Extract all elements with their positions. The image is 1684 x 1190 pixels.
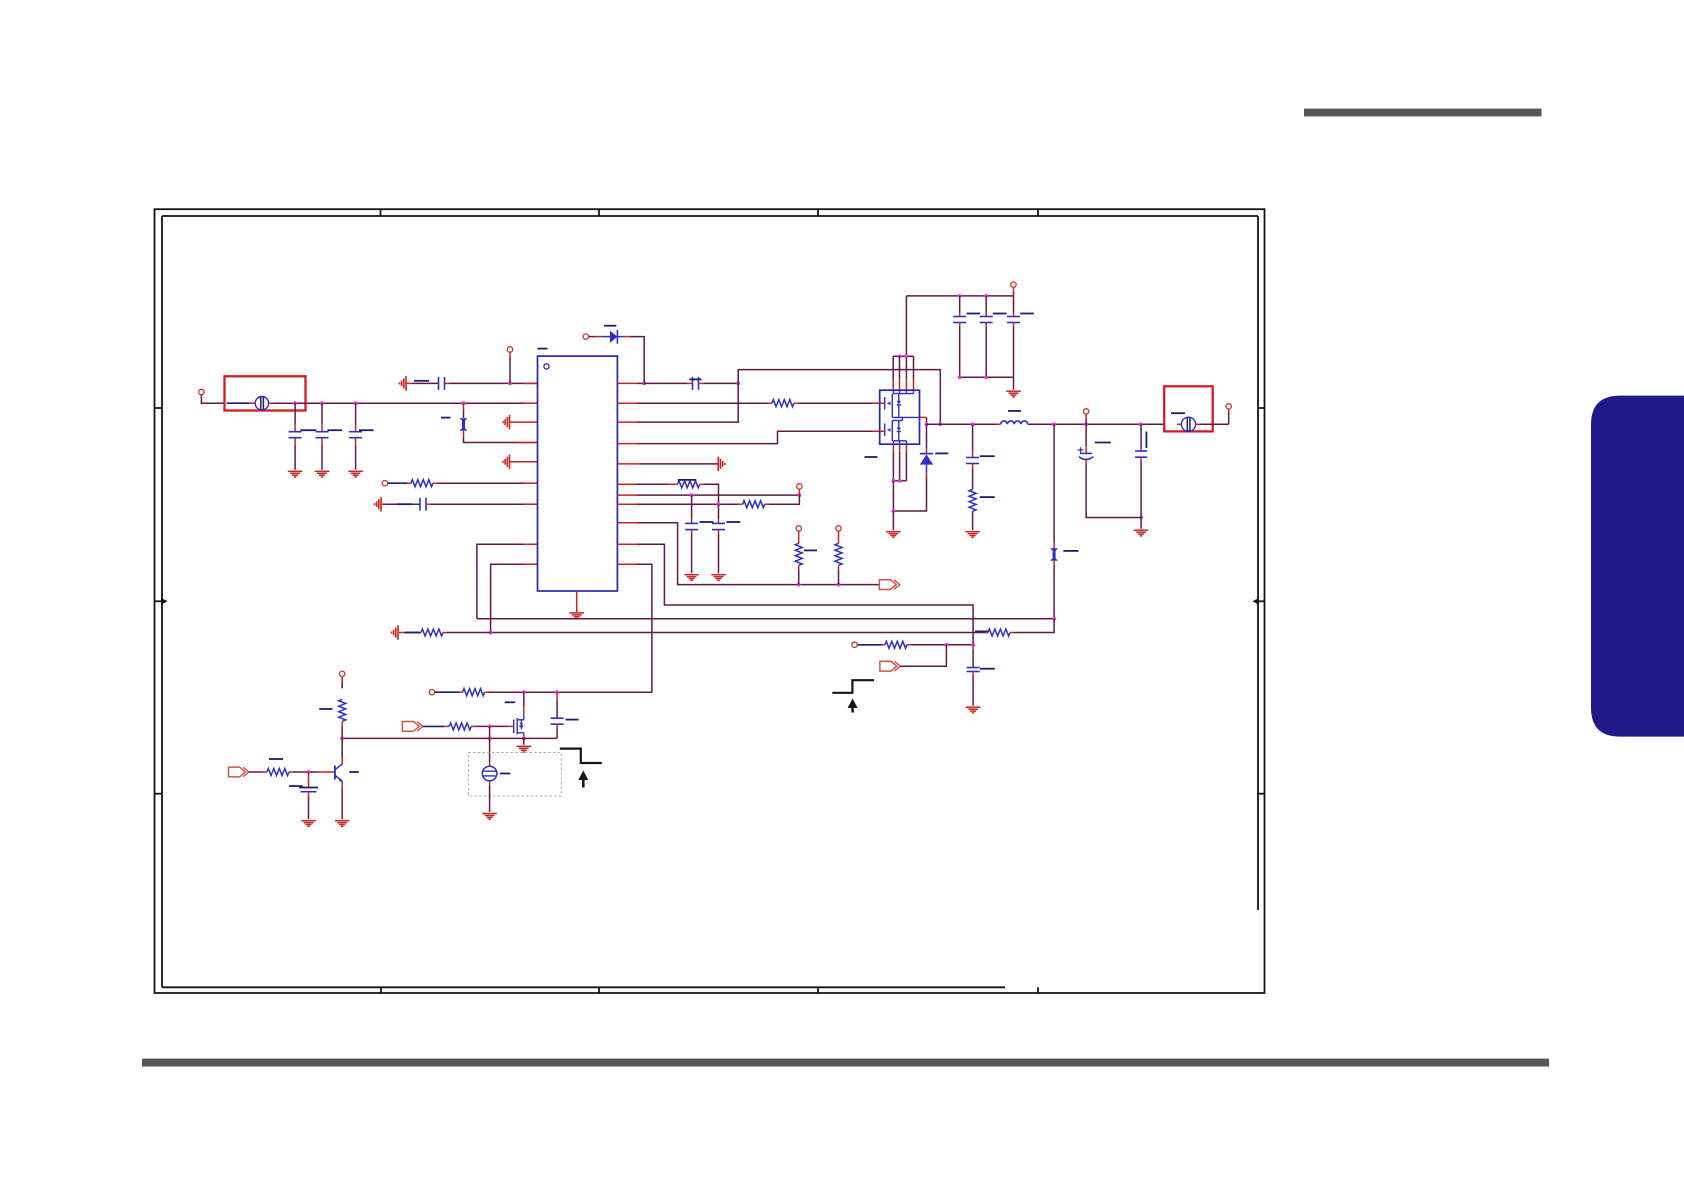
- fuse symbol: [250, 397, 273, 410]
- vertical to thermistor: [489, 726, 491, 766]
- IC left pin row 6: terminal + resistor: [382, 480, 537, 487]
- ground fb cap2: [711, 575, 726, 581]
- IC bottom ground: [569, 591, 584, 619]
- small MOSFET discharge: [505, 692, 531, 752]
- sheet frame outer: [155, 209, 1265, 993]
- thermistor circle component: [482, 766, 510, 819]
- IC right pin 9: wire to port 1: [617, 523, 879, 587]
- ground base cap: [301, 821, 316, 827]
- DNP dashed box: [468, 753, 561, 797]
- bulk cap 3: [1007, 296, 1034, 377]
- ferrite bead to lower node: [1050, 424, 1078, 618]
- IC main body: [538, 349, 618, 591]
- up arrow B: [578, 771, 588, 788]
- capacitor input 1: [289, 403, 317, 470]
- IC right pin 5: chassis gnd: [617, 457, 724, 472]
- terminal input left: [199, 389, 204, 394]
- port P3 + base resistor: [229, 759, 335, 777]
- ground emitter: [335, 821, 350, 827]
- frame bottom ticks: [380, 987, 382, 993]
- output rail: [927, 411, 1165, 426]
- enable net wire: [429, 689, 652, 696]
- IC right pin 11: long drop wire: [617, 564, 652, 692]
- node dots input rail: [293, 401, 297, 405]
- pin stub red at IC: [524, 402, 538, 404]
- output terminal right: [1226, 404, 1231, 425]
- wire input drop: [201, 395, 224, 403]
- frame left arrow mark: [161, 598, 168, 605]
- pull-up resistor to terminal: [319, 671, 346, 738]
- ferrite bead input branch: [441, 403, 538, 442]
- fuse box red outline: [225, 376, 306, 410]
- feedback cap 2 to gnd: [711, 504, 740, 580]
- up arrow A: [848, 699, 858, 713]
- frame right ticks: [1258, 407, 1265, 409]
- step annotation A: [832, 680, 874, 693]
- pull-up resistor 2: [835, 526, 842, 585]
- ceramic output cap: [1134, 424, 1149, 536]
- right blue tab: [1591, 396, 1684, 737]
- ground cap2: [315, 471, 330, 477]
- bootstrap diode branch: [583, 326, 644, 384]
- bulk cap 2: [980, 296, 1007, 377]
- ground fb cap1: [684, 575, 699, 581]
- snubber cap + resistor: [965, 424, 995, 537]
- IC left pin row 5: chassis gnd: [503, 455, 538, 470]
- schottky diode phase to gnd: [920, 424, 949, 477]
- long feedback line 1: [477, 617, 1056, 621]
- frame right arrow mark: [1253, 598, 1260, 605]
- drain feed mini bus: [893, 354, 913, 390]
- IC left pin row 9 step-down wire: [491, 564, 538, 632]
- bulk cap 1: [953, 296, 980, 377]
- step annotation B: [560, 749, 602, 763]
- capacitor input 3: [349, 403, 374, 470]
- top supply bus: [906, 294, 1013, 390]
- wire fuse to IC: [273, 402, 538, 404]
- ground thermistor: [482, 814, 497, 820]
- top right gray bar: [1304, 109, 1542, 117]
- line 2 left: chassis gnd + resistor: [392, 625, 491, 640]
- NPN transistor: [335, 738, 359, 826]
- IC right pin 4: gate wire bottom: [617, 431, 879, 443]
- IC right pin 1 wire: [617, 382, 646, 386]
- ground output caps: [1134, 530, 1149, 536]
- base bypass cap: [289, 772, 318, 826]
- ground bulk caps: [1006, 391, 1021, 397]
- IC right pin 2: gate resistor top: [617, 400, 879, 407]
- port P1: [879, 580, 899, 590]
- bootstrap capacitor: [644, 377, 740, 390]
- feedback cap 1 to gnd: [684, 495, 713, 580]
- enable filter cap: [551, 692, 579, 738]
- IC left pin row 1: chassis gnd + cap + terminal: [400, 347, 538, 391]
- phase pin out of package: [920, 417, 929, 426]
- IC right pin 10: wire to lower node: [617, 544, 973, 645]
- port P4 + gate resistor: [402, 722, 508, 732]
- IC right pin 8: resistor riser: [617, 495, 799, 508]
- IC left pin row 8 step-down wire: [477, 544, 538, 618]
- bottom gray bar: [142, 1059, 1549, 1067]
- IC right pin 6: resistor to corner: [617, 480, 718, 504]
- package source pins down: [865, 444, 927, 537]
- ground cap3: [348, 471, 363, 477]
- ground cap1: [288, 471, 303, 477]
- ground power stage: [886, 532, 901, 538]
- IC right pin 3 wire to bootstrap node: [617, 370, 942, 427]
- top supply terminal: [1011, 282, 1016, 296]
- snubber resistor: [969, 489, 976, 511]
- electrolytic output cap: [1078, 424, 1143, 519]
- output fuse box: [1164, 386, 1229, 431]
- frame inner lines: [162, 215, 1258, 217]
- capacitor input 2: [316, 403, 343, 470]
- ground snubber: [965, 532, 980, 538]
- pull-up resistor 1: [795, 526, 817, 585]
- bulk caps bottom bus + ground: [958, 375, 1021, 397]
- IC left pin row 7: chassis gnd + cap: [375, 497, 538, 512]
- IC left pin row 3: chassis gnd: [503, 415, 538, 430]
- ground return line: [340, 737, 557, 741]
- dual MOSFET package: [880, 390, 920, 444]
- ground sense cap: [966, 707, 981, 713]
- phase terminal: [1083, 409, 1088, 425]
- frame left ticks: [155, 407, 163, 409]
- wire inside fuse box (navy label artifact): [227, 402, 250, 404]
- ground small mosfet: [517, 746, 532, 752]
- current sense line with terminal: [852, 641, 975, 648]
- port P2 branch: [880, 645, 947, 671]
- IC right pin 7: feedback node with terminal: [617, 484, 802, 497]
- sense filter cap to gnd: [966, 645, 995, 713]
- long feedback line 2 with sense resistor: [489, 619, 1054, 636]
- frame top ticks: [380, 209, 382, 216]
